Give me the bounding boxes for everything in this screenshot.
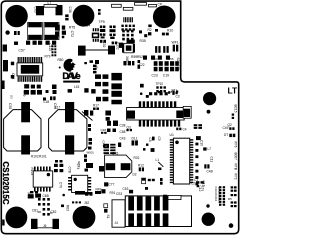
svg-text:C11: C11	[210, 157, 214, 163]
svg-text:DAVe: DAVe	[62, 70, 80, 81]
crystal hatched footprint	[123, 17, 133, 22]
resistor bits center top	[148, 32, 151, 35]
regulator U4 pins bottom	[93, 39, 95, 42]
svg-text:R103: R103	[30, 168, 34, 176]
capacitor row below C65/C66	[26, 41, 30, 45]
svg-text:J52: J52	[84, 201, 89, 205]
svg-text:C152: C152	[116, 42, 120, 50]
resistor R70	[84, 62, 87, 64]
connector J3 bottom pins	[128, 213, 168, 226]
parts between U6 and U7 top	[55, 160, 58, 163]
svg-text:C77: C77	[109, 183, 115, 187]
op-amp U2 body	[17, 63, 43, 76]
svg-text:B007: B007	[234, 153, 238, 161]
capacitor C43 below cluster	[105, 111, 111, 116]
connector J3 outline	[125, 196, 191, 227]
svg-text:R52: R52	[137, 55, 143, 59]
svg-text:C10: C10	[200, 140, 204, 146]
diode D1 pads	[155, 46, 157, 53]
capacitor C44 above C45	[103, 145, 106, 147]
IC U1 left pin row	[170, 139, 173, 183]
resistor R81 vertical pads	[142, 178, 146, 184]
tiny parts right of C19 bank row	[175, 67, 179, 72]
capacitor C64	[196, 136, 201, 140]
svg-text:R32: R32	[134, 156, 140, 160]
svg-text:C6B: C6B	[43, 194, 49, 198]
wire diagonal mid	[82, 112, 93, 121]
svg-text:C1: C1	[194, 178, 198, 182]
resistor pair left	[14, 31, 17, 35]
connector J5 left pad	[126, 111, 135, 119]
small parts above grid	[30, 191, 33, 193]
svg-text:R80: R80	[58, 58, 64, 62]
mounting hole H3 top-right	[153, 5, 176, 28]
row of three caps mid-left	[24, 90, 29, 95]
IC U6 body	[33, 171, 53, 187]
wire C33	[86, 49, 108, 51]
capacitor column right of logo	[93, 65, 97, 67]
svg-text:L15: L15	[74, 85, 80, 89]
capacitor C45 right pad	[121, 163, 131, 170]
resistor specks below C36	[98, 9, 101, 11]
svg-text:CT3: CT3	[201, 186, 205, 192]
svg-text:WF1: WF1	[172, 41, 179, 45]
transistor Q4 pads	[100, 26, 102, 29]
extra pads row right of U2 rows	[52, 85, 57, 90]
svg-text:C23: C23	[152, 74, 158, 78]
op-amp U2 pins top row	[18, 57, 43, 63]
svg-text:D2: D2	[133, 173, 137, 177]
capacitor row below U2	[24, 84, 29, 88]
IC U6 pin1 dot	[47, 173, 50, 176]
center cluster column b	[103, 74, 109, 79]
hole H7 bottom-right	[202, 213, 215, 226]
svg-text:C4: C4	[183, 128, 187, 132]
speck near C51	[145, 187, 148, 190]
capacitor C17/C30 pair	[162, 33, 165, 36]
bottom row caps under U6	[28, 194, 34, 198]
wire J6	[38, 227, 53, 229]
svg-text:C58: C58	[120, 130, 126, 134]
svg-text:C53: C53	[123, 187, 129, 191]
svg-text:R91: R91	[110, 191, 116, 195]
svg-text:RC4: RC4	[77, 161, 81, 167]
svg-text:RT5: RT5	[69, 26, 75, 30]
svg-text:R17: R17	[93, 104, 99, 108]
svg-text:TP10: TP10	[156, 82, 164, 86]
IC U7 body	[72, 175, 88, 192]
svg-text:C7B: C7B	[68, 167, 72, 173]
transformer T1 top pad	[21, 102, 30, 122]
svg-text:S1: S1	[106, 215, 110, 219]
op-amp U8 SOIC	[122, 43, 135, 52]
IC U6 top pin row	[34, 167, 51, 171]
via below H4	[207, 110, 211, 114]
pad above J3	[163, 195, 167, 199]
svg-text:C2: C2	[191, 182, 195, 186]
svg-text:CS102015C: CS102015C	[1, 162, 10, 205]
resistor R3	[139, 30, 142, 33]
left edge pad	[2, 81, 5, 90]
svg-text:L7: L7	[208, 147, 212, 151]
resistor R69b	[146, 95, 149, 98]
svg-text:C36: C36	[68, 7, 72, 13]
svg-text:R73: R73	[234, 174, 238, 180]
DAVE logo tagline Embedded Systems	[63, 81, 80, 83]
center cluster column a	[95, 60, 99, 64]
svg-text:R79: R79	[45, 55, 51, 59]
svg-text:C9: C9	[157, 137, 161, 141]
inductor L2	[203, 147, 206, 150]
connector J5 outline	[127, 108, 185, 121]
svg-text:C1C2C3C4: C1C2C3C4	[214, 187, 218, 202]
mounting hole H2 top-center	[73, 5, 95, 27]
capacitor C31	[119, 43, 123, 48]
svg-text:C4B: C4B	[207, 170, 213, 174]
IC U1 pin1 dot	[175, 141, 179, 145]
parts under U7	[72, 201, 74, 203]
svg-text:R69: R69	[27, 193, 31, 199]
svg-text:C19: C19	[163, 74, 169, 78]
resistor R82	[148, 179, 151, 181]
diode D2 pads	[163, 46, 165, 53]
svg-text:R5: R5	[228, 197, 232, 201]
right edge pads bottom	[231, 186, 234, 188]
svg-text:R63: R63	[66, 205, 70, 211]
parts above bottom-right grid	[196, 181, 199, 183]
transformer T2 top pad	[65, 102, 74, 122]
svg-text:R55: R55	[168, 57, 174, 61]
electrolytic cap hatched footprint A	[104, 144, 110, 154]
via H8 bottom-right corner	[229, 223, 234, 228]
electrolytic cap hatched footprint B	[110, 144, 115, 154]
svg-text:R81: R81	[169, 90, 175, 94]
capacitor C38b pads mid	[107, 121, 111, 126]
svg-text:C3: C3	[176, 95, 180, 99]
svg-text:C63: C63	[34, 7, 38, 13]
hole H4 right-middle	[203, 92, 216, 105]
inductor L9 pads	[43, 98, 46, 101]
svg-text:R2: R2	[148, 28, 152, 32]
parts above J5 right	[158, 91, 160, 93]
resistor R2	[148, 25, 151, 28]
connector J5 bottom pin row	[139, 120, 180, 126]
capacitor C4833 row	[123, 61, 126, 65]
via left of logo	[59, 67, 61, 69]
transistor Q3	[126, 129, 128, 131]
svg-text:L18: L18	[44, 100, 50, 104]
via TP top-left column	[5, 30, 9, 34]
svg-text:C8: C8	[148, 138, 152, 142]
capacitor C45 left pad	[106, 163, 116, 170]
svg-text:C55: C55	[8, 103, 12, 109]
bottom-right pad grid	[219, 186, 225, 206]
resistor R64 pair	[194, 124, 198, 126]
svg-text:R102: R102	[31, 155, 39, 159]
capacitor left of C45	[99, 166, 104, 172]
capacitor pair right	[204, 164, 206, 168]
connector J6 left pad	[31, 219, 38, 229]
svg-text:C81: C81	[32, 209, 38, 213]
svg-text:U3: U3	[94, 65, 98, 69]
resistor row near J5 left	[84, 110, 88, 116]
svg-text:C32: C32	[102, 42, 106, 48]
capacitor C33 left pad	[78, 46, 86, 56]
mounting hole H1 top-left	[5, 5, 27, 27]
svg-text:TP5: TP5	[99, 20, 105, 24]
svg-text:R12: R12	[138, 164, 144, 168]
tantalum C65	[28, 23, 43, 40]
svg-text:L17: L17	[55, 106, 61, 110]
tantalum C66	[44, 23, 59, 40]
regulator U4 pins top	[93, 28, 95, 31]
capacitor pads left of U1 bottom	[160, 178, 163, 181]
tiny pad column upper-left	[52, 45, 57, 56]
test pad row below TP10	[149, 92, 152, 95]
inductor outline top edge a	[112, 4, 122, 7]
resistor pair left of H4	[172, 91, 174, 93]
svg-text:R101: R101	[39, 155, 47, 159]
resistor RT5 cluster	[55, 25, 60, 31]
resistor network R8 grid	[122, 30, 133, 41]
capacitor bank C23/C19 row1	[154, 61, 179, 66]
transistor Q5 pads	[110, 26, 113, 29]
svg-text:C59: C59	[22, 91, 26, 97]
via above H7	[206, 204, 209, 207]
IC U7 right pin row	[88, 177, 91, 191]
resistor R61	[127, 40, 135, 44]
transformer T2 bottom pad	[65, 135, 74, 154]
capacitor C60 left edge	[3, 60, 8, 71]
svg-text:C70: C70	[59, 182, 63, 188]
capacitor C45 outline	[105, 155, 132, 178]
svg-text:J4: J4	[115, 221, 119, 225]
transistor WF1 pads	[173, 45, 175, 52]
IC U6 bottom pin row	[34, 188, 51, 192]
svg-text:R49: R49	[96, 188, 102, 192]
IC U7 pin1 dot	[74, 178, 77, 181]
board outline with top-right notch	[1, 1, 238, 234]
svg-text:DT: DT	[224, 133, 228, 137]
svg-text:C22: C22	[139, 63, 145, 67]
IC U1 body	[173, 138, 189, 184]
svg-text:R76: R76	[234, 142, 238, 148]
svg-text:RTB: RTB	[234, 164, 238, 170]
resistor right of logo	[90, 60, 94, 63]
inductor L15 pads	[54, 169, 58, 172]
capacitor C9	[152, 137, 155, 141]
capacitor bank C23/C19 row2	[154, 67, 175, 72]
connector J3 top pins	[128, 196, 168, 210]
connector J5 top pin row	[139, 101, 176, 107]
svg-text:C49: C49	[223, 126, 229, 130]
svg-text:W001: W001	[87, 151, 95, 155]
svg-text:S3: S3	[10, 95, 14, 99]
capacitor C152 pads	[112, 42, 114, 45]
capacitor C63	[36, 6, 44, 15]
svg-text:C43: C43	[120, 137, 126, 141]
svg-text:R35: R35	[140, 39, 146, 43]
resistor small	[14, 42, 18, 45]
transformer T2 outline	[49, 110, 87, 151]
capacitor under C77	[101, 189, 105, 193]
svg-text:C38: C38	[120, 124, 126, 128]
svg-text:C122: C122	[48, 44, 52, 52]
mounting hole H5 bottom-left	[6, 207, 28, 229]
pads column right of T2	[88, 124, 91, 127]
svg-text:R54: R54	[152, 57, 158, 61]
box J4	[112, 200, 125, 227]
svg-text:LT: LT	[228, 86, 238, 96]
svg-text:R10: R10	[167, 28, 173, 32]
svg-text:CP: CP	[158, 3, 163, 7]
inductor outline top edge c	[135, 3, 147, 6]
capacitor C58b pads mid	[107, 129, 111, 133]
DAVE logo head	[64, 59, 77, 72]
capacitor C61 left edge	[3, 45, 7, 52]
svg-text:J6: J6	[43, 224, 47, 228]
svg-text:U1: U1	[170, 133, 174, 137]
regulator U4 body	[92, 33, 99, 39]
svg-text:DL1: DL1	[132, 137, 138, 141]
wire stub C81	[38, 212, 53, 213]
resistor grid 4x4 top-right	[121, 25, 134, 31]
capacitor C32 pads	[100, 40, 103, 43]
capacitor column right of U1	[195, 143, 198, 146]
connector J6 right pad	[53, 219, 60, 229]
pad left edge bottom	[2, 220, 4, 226]
capacitor C36	[56, 5, 63, 15]
capacitor C40 above U1	[176, 128, 178, 131]
svg-text:CT2: CT2	[70, 31, 74, 38]
via left of U7	[62, 194, 65, 197]
svg-text:34B33: 34B33	[125, 56, 129, 65]
connector J5 right pad	[176, 111, 184, 119]
svg-text:C57: C57	[19, 49, 25, 53]
connector J3 key notch box	[168, 195, 181, 199]
svg-text:Q3: Q3	[127, 125, 131, 129]
transformer T1 bottom pad	[21, 135, 30, 154]
svg-text:CS3: CS3	[116, 192, 122, 196]
capacitor C22	[138, 60, 141, 63]
resistor row above H6	[75, 191, 85, 195]
center cluster column c large	[111, 73, 122, 81]
IC U7 left pin row	[68, 177, 71, 191]
capacitor pads beside U2	[11, 62, 14, 65]
transformer T1 outline	[4, 110, 41, 151]
op-amp U2 pins bottom row	[18, 76, 43, 81]
svg-text:C38: C38	[101, 128, 107, 132]
resistor R9	[140, 84, 144, 88]
resistor pair right of C36	[65, 14, 68, 17]
svg-text:BC15: BC15	[234, 105, 238, 113]
mounting hole H6 bottom-center	[73, 206, 96, 229]
inductor outline top edge b	[123, 7, 133, 10]
capacitor pair right of T2	[84, 154, 87, 157]
resistor pair mid-low	[143, 148, 146, 151]
inductor L16 pads	[54, 164, 58, 167]
IC U1 right pin row	[190, 139, 193, 183]
capacitor right of hatched	[118, 143, 121, 148]
capacitor C33 right pad	[108, 46, 115, 55]
diode D5 with outline left of hole H4	[183, 106, 191, 118]
svg-text:U4: U4	[86, 24, 90, 28]
svg-text:L1: L1	[156, 158, 160, 162]
transistor S1 pads right of H6	[104, 204, 108, 208]
cluster right of H5: grid	[38, 198, 50, 216]
